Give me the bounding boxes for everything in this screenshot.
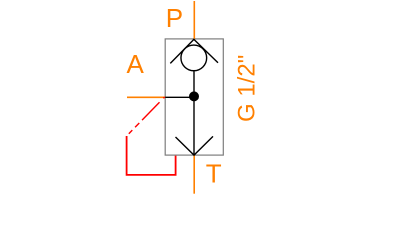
svg-text:A: A — [127, 49, 145, 79]
svg-text:G 1/2": G 1/2" — [234, 55, 261, 122]
check valve seat V — [170, 39, 218, 63]
valve body rectangle — [165, 39, 223, 155]
svg-text:T: T — [206, 158, 222, 188]
junction node — [189, 91, 199, 101]
wire port A (orange) — [127, 96, 165, 98]
wire port T (orange) — [193, 155, 195, 194]
pilot line dashed (red) — [127, 97, 165, 136]
pilot line path (red) — [127, 136, 176, 175]
wire ball to T (black) — [193, 72, 195, 156]
wire A to junction (black) — [165, 96, 194, 98]
wire port P (orange) — [193, 1, 195, 39]
svg-text:P: P — [166, 3, 183, 33]
pilot piston V — [176, 136, 214, 155]
check valve ball — [181, 45, 207, 71]
